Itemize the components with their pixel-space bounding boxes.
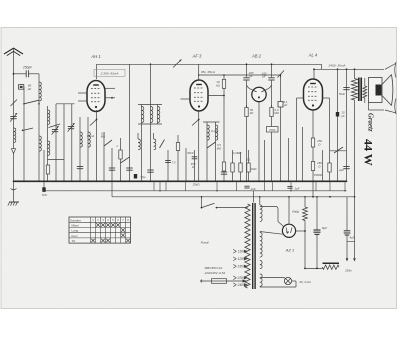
svg-text:pF: pF (27, 87, 32, 91)
svg-text:265v: 265v (344, 269, 352, 273)
svg-text:MB/150V=1A: MB/150V=1A (205, 266, 223, 270)
svg-text:240: 240 (236, 283, 243, 287)
svg-text:220: 220 (236, 276, 243, 280)
svg-text:4µF: 4µF (349, 236, 354, 240)
svg-text:2µF: 2µF (293, 187, 299, 191)
svg-text:pF: pF (248, 74, 253, 78)
svg-text:1MΩ: 1MΩ (251, 167, 257, 171)
svg-text:7,5: 7,5 (172, 161, 176, 165)
svg-text:5nF: 5nF (42, 193, 47, 197)
svg-text:4V, 0,2A: 4V, 0,2A (299, 280, 311, 284)
svg-text:1nF: 1nF (251, 187, 256, 191)
svg-text:µF: µF (341, 114, 345, 118)
svg-text:150: 150 (237, 265, 243, 269)
svg-text:AZ 1: AZ 1 (285, 248, 294, 253)
svg-text:50nF: 50nF (339, 92, 345, 96)
svg-text:7000: 7000 (269, 128, 276, 132)
svg-text:P3000: P3000 (314, 173, 323, 177)
svg-text:Rundf.: Rundf. (201, 241, 210, 245)
svg-text:50nF: 50nF (187, 151, 194, 155)
svg-text:2µF: 2µF (338, 168, 344, 172)
svg-text:2,35V; 93mA: 2,35V; 93mA (100, 71, 119, 75)
svg-text:95v, 45mA: 95v, 45mA (201, 70, 215, 74)
svg-text:TA: TA (72, 239, 76, 243)
svg-text:4,5mA: 4,5mA (87, 134, 95, 138)
svg-text:AB 2: AB 2 (251, 54, 262, 59)
svg-text:240V; 36mA: 240V; 36mA (328, 63, 346, 67)
svg-text:25kΩ: 25kΩ (192, 182, 201, 186)
svg-text:MΩ: MΩ (101, 135, 105, 139)
svg-text:AL 4: AL 4 (308, 53, 318, 58)
svg-text:44 W: 44 W (362, 139, 376, 166)
svg-text:50µ: 50µ (141, 175, 146, 179)
svg-text:Graetz: Graetz (367, 113, 374, 132)
svg-text:Mittel: Mittel (72, 224, 80, 228)
svg-text:Schalter: Schalter (70, 218, 81, 222)
svg-text:AF 3: AF 3 (192, 54, 202, 59)
svg-text:AH 1: AH 1 (90, 54, 100, 59)
svg-text:µF: µF (284, 103, 288, 107)
svg-text:250pF: 250pF (22, 66, 33, 70)
svg-text:125: 125 (237, 257, 243, 261)
svg-text:pF: pF (261, 75, 266, 79)
svg-text:Kurz: Kurz (72, 234, 79, 238)
svg-text:8µF: 8µF (322, 226, 327, 230)
svg-text:0,1µF: 0,1µF (211, 129, 218, 133)
svg-text:Feld: Feld (292, 210, 298, 214)
svg-text:110: 110 (238, 250, 243, 254)
svg-text:0,2MΩ: 0,2MΩ (233, 151, 242, 155)
svg-text:Lang: Lang (72, 229, 79, 233)
svg-text:220/240V~0,5A: 220/240V~0,5A (204, 271, 226, 275)
